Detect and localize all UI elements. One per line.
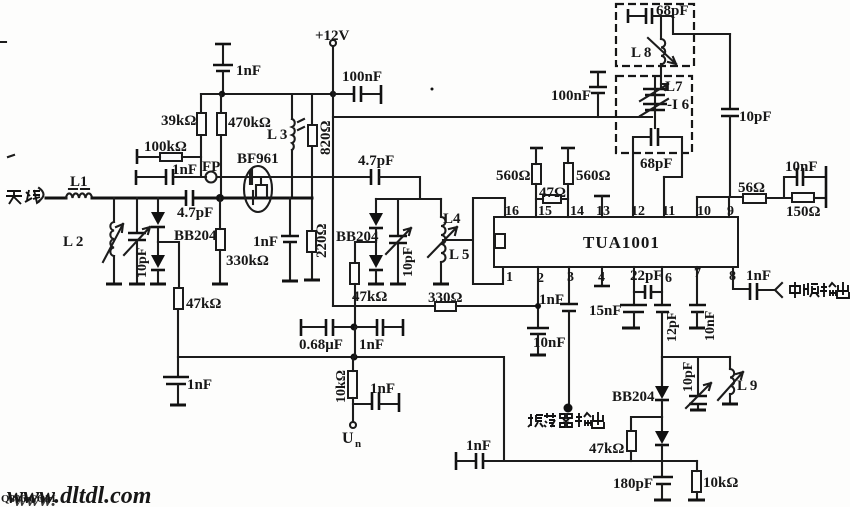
inductor L2 tunable	[63, 198, 123, 283]
power +12V terminal	[315, 28, 350, 306]
svg-text:1nF: 1nF	[466, 438, 491, 454]
pin 10 stub	[697, 197, 711, 219]
svg-text:39kΩ: 39kΩ	[161, 113, 196, 129]
svg-text:820Ω: 820Ω	[318, 120, 334, 155]
resistor 47kOhm mixer	[589, 431, 636, 461]
antenna label TianXian (glyphs drawn)	[6, 190, 40, 204]
svg-text:10pF: 10pF	[401, 247, 416, 277]
ground 10nF pin2	[530, 354, 546, 357]
svg-text:9: 9	[727, 204, 734, 219]
svg-text:15nF: 15nF	[589, 303, 622, 319]
resistor 47kOhm osc	[350, 263, 387, 327]
svg-text:10nF: 10nF	[785, 159, 818, 175]
svg-text:4.7pF: 4.7pF	[358, 153, 394, 169]
svg-text:L4: L4	[443, 211, 461, 227]
ground 10nF pin7	[689, 327, 705, 330]
capacitor 0.68uF left bar	[300, 319, 303, 336]
node junction +12V rail	[330, 91, 336, 97]
ground 330kOhm	[212, 283, 228, 286]
diode BB204 osc lower varactor	[369, 242, 383, 283]
capacitor 1nF IF output	[746, 268, 774, 300]
node junction 0.68uF/47k	[351, 324, 358, 331]
diode BB204 lower varactor	[151, 228, 217, 283]
capacitor 1nF tuning-line bypass	[163, 377, 212, 404]
svg-text:1nF: 1nF	[172, 162, 197, 178]
label IF output (zhong pin shu chu)	[790, 282, 849, 298]
shield box L7 L6 dashed	[616, 76, 692, 153]
svg-text:7: 7	[694, 266, 701, 281]
svg-text:L 5: L 5	[449, 247, 469, 263]
capacitor 15nF	[589, 303, 647, 327]
svg-text:68pF: 68pF	[640, 156, 673, 172]
pin 3 stub	[567, 267, 574, 304]
wire long +12V feed y=117	[333, 116, 652, 118]
svg-text:10pF: 10pF	[739, 109, 772, 125]
wire gate1 line	[194, 197, 312, 200]
shield box L8 dashed	[616, 4, 694, 66]
svg-text:100nF: 100nF	[551, 88, 591, 104]
svg-text:12pF: 12pF	[665, 312, 680, 342]
op-amp U1 TUA1001 IC body	[494, 217, 738, 267]
svg-text:2: 2	[537, 271, 544, 286]
resistor 330Ohm supply	[333, 290, 538, 311]
terminal Un	[342, 422, 361, 450]
resistor 39kOhm	[161, 94, 206, 177]
wire G2/drain line y=177	[217, 176, 371, 178]
capacitor 1nF pin3	[560, 304, 578, 408]
resistor 220Ohm source	[307, 223, 330, 279]
ground 15nF	[622, 327, 640, 330]
capacitor 10nF pin7	[689, 305, 718, 341]
svg-text:100kΩ: 100kΩ	[144, 139, 187, 155]
capacitor 0.68uF	[299, 319, 353, 353]
svg-text:BB204: BB204	[174, 228, 217, 244]
capacitor 10pF osc trimmer	[386, 199, 416, 283]
svg-text:BB204: BB204	[612, 389, 655, 405]
ground 10pF right trimmer	[690, 409, 706, 412]
resistor 560Ohm pin14	[561, 148, 611, 184]
node FP test point	[202, 159, 220, 183]
capacitor 4.7pF drain coupling	[358, 153, 420, 199]
svg-text:-I 6: -I 6	[667, 97, 690, 113]
wire pin6 branch y=357	[662, 356, 730, 358]
resistor 150Ohm	[786, 193, 825, 220]
svg-text:12: 12	[631, 204, 645, 219]
ground BB204 input	[150, 283, 166, 286]
wire mixer varactor tap	[631, 417, 662, 431]
ground BB204 osc	[368, 283, 384, 286]
wire varactor tap	[158, 242, 179, 288]
svg-text:1nF: 1nF	[359, 337, 384, 353]
wire pin16 loop	[473, 198, 505, 284]
capacitor 100nF top	[333, 69, 382, 104]
svg-text:6: 6	[665, 271, 672, 286]
svg-text:TUA1001: TUA1001	[583, 233, 660, 252]
wire tuning line	[178, 357, 504, 461]
svg-text:15: 15	[538, 204, 552, 219]
node junction tuning/10k	[351, 354, 358, 361]
antenna connector arc	[39, 188, 44, 201]
resistor 560Ohm pin15	[496, 148, 543, 184]
svg-text:16: 16	[505, 204, 519, 219]
svg-text:n: n	[355, 438, 361, 450]
wire bottom line y=461	[484, 460, 697, 462]
resistor 56Ohm	[738, 180, 792, 203]
ground 180pF	[654, 499, 671, 502]
stray scan marks	[0, 42, 14, 157]
svg-text:+12V: +12V	[315, 28, 350, 44]
svg-text:L 8: L 8	[631, 45, 651, 61]
capacitor 180pF	[613, 461, 673, 499]
svg-text:47kΩ: 47kΩ	[589, 441, 624, 457]
ground 10pF trimmer	[129, 283, 145, 286]
svg-text:L 3: L 3	[267, 127, 287, 143]
svg-text:560Ω: 560Ω	[496, 168, 531, 184]
resistor 47kOhm input	[174, 288, 221, 377]
capacitor 10pF top right	[721, 34, 772, 197]
svg-text:47kΩ: 47kΩ	[186, 296, 221, 312]
svg-text:330kΩ: 330kΩ	[226, 253, 269, 269]
svg-text:47Ω: 47Ω	[539, 185, 566, 201]
capacitor 1nF bottom	[456, 438, 491, 470]
ground 220Ohm	[304, 279, 320, 282]
resistor 330kOhm	[216, 198, 269, 283]
wire pin9 pin10	[697, 196, 743, 198]
ground 1nF source	[282, 280, 298, 283]
inductor L5	[428, 227, 469, 283]
wire antenna input	[46, 197, 66, 200]
inductor L4	[441, 199, 461, 244]
capacitor 10nF output	[784, 159, 825, 198]
inductor L1	[66, 174, 92, 198]
capacitor 12pF	[654, 305, 680, 386]
inductor L8 tunable	[631, 16, 676, 88]
svg-text:10pF: 10pF	[135, 248, 150, 278]
pin 9 stub	[727, 197, 734, 219]
pin 4 stub with ground	[594, 267, 610, 286]
svg-text:10nF: 10nF	[703, 311, 718, 341]
capacitor 1nF mid	[355, 319, 403, 353]
label oscillator output (zhen dang qi shu chu)	[528, 412, 604, 428]
svg-text:150Ω: 150Ω	[786, 204, 821, 220]
capacitor 4.7pF series	[177, 190, 213, 221]
svg-text:10nF: 10nF	[533, 335, 566, 351]
svg-text:4.7pF: 4.7pF	[177, 205, 213, 221]
transistor BF961 dual-gate MOSFET	[237, 151, 279, 212]
pin 6 stub	[662, 267, 672, 305]
svg-text:www.dltdl.com: www.dltdl.com	[7, 483, 151, 507]
terminal oscillator output node	[564, 404, 573, 413]
capacitor 10pF trimmer right	[681, 357, 711, 409]
svg-text:1nF: 1nF	[187, 377, 212, 393]
svg-text:47kΩ: 47kΩ	[352, 289, 387, 305]
node junction 1nF/470k	[219, 91, 225, 97]
diode BB204 mixer lower	[655, 417, 669, 461]
wire osc varactor tap	[355, 242, 376, 263]
wire bias rail y=94	[201, 93, 333, 95]
resistor 100kOhm	[137, 139, 201, 164]
wire 47k to tuning line	[354, 327, 356, 357]
capacitor 10nF pin2	[527, 328, 566, 354]
svg-text:220Ω: 220Ω	[314, 223, 330, 258]
diode BB204 osc upper varactor	[336, 199, 383, 245]
watermark www.dltdl.com	[1, 483, 151, 507]
svg-text:U: U	[342, 430, 354, 447]
ground L4 L5	[433, 283, 449, 286]
node G1 junction	[216, 194, 224, 202]
svg-text:4: 4	[598, 270, 605, 285]
svg-text:22pF: 22pF	[630, 268, 663, 284]
wire oscillator top y=199	[376, 198, 441, 200]
svg-text:3: 3	[567, 270, 574, 285]
pin 12 stub	[631, 137, 645, 219]
capacitor 100nF right	[551, 72, 607, 117]
svg-text:L 2: L 2	[63, 234, 83, 250]
svg-text:L7: L7	[665, 79, 683, 95]
inductor L9 tunable	[718, 357, 757, 403]
svg-text:11: 11	[662, 204, 675, 219]
resistor 10kOhm Un	[334, 357, 357, 422]
svg-text:L1: L1	[70, 174, 88, 190]
svg-text:100nF: 100nF	[342, 69, 382, 85]
svg-text:0.68μF: 0.68μF	[299, 337, 343, 353]
inductor L6 tunable	[640, 78, 690, 128]
diode BB204 mixer upper	[612, 357, 669, 417]
svg-text:330Ω: 330Ω	[428, 290, 463, 306]
svg-text:8: 8	[729, 269, 736, 284]
inductor L7 tunable	[640, 79, 683, 101]
svg-text:470kΩ: 470kΩ	[228, 115, 271, 131]
svg-text:560Ω: 560Ω	[576, 168, 611, 184]
resistor 470kOhm	[217, 94, 271, 198]
pin 7 stub	[694, 266, 701, 305]
pin 2 stub	[537, 267, 544, 328]
pin 15 stub	[536, 184, 552, 219]
capacitor 68pF lower	[634, 128, 682, 177]
svg-text:13: 13	[596, 204, 610, 219]
svg-text:10kΩ: 10kΩ	[334, 370, 349, 403]
capacitor 22pF	[630, 268, 663, 299]
svg-text:10pF: 10pF	[681, 362, 696, 392]
svg-text:1nF: 1nF	[746, 268, 771, 284]
svg-text:56Ω: 56Ω	[738, 180, 765, 196]
svg-text:BF961: BF961	[237, 151, 279, 167]
ground L2	[106, 283, 122, 286]
svg-text:L 9: L 9	[737, 378, 757, 394]
svg-text:1nF: 1nF	[253, 234, 278, 250]
svg-text:1nF: 1nF	[370, 381, 395, 397]
diode BB204 upper varactor	[151, 198, 165, 242]
svg-text:10: 10	[697, 204, 711, 219]
capacitor 10pF trimmer input	[124, 198, 150, 283]
svg-text:1nF: 1nF	[236, 63, 261, 79]
terminal IF output connector	[775, 283, 782, 297]
ground 10kOhm mixer	[688, 499, 705, 502]
capacitor 68pF upper	[628, 3, 730, 34]
ground 10pF osc trimmer	[390, 283, 406, 286]
svg-text:10kΩ: 10kΩ	[703, 475, 738, 491]
ground 1nF tuning-line	[170, 404, 186, 407]
capacitor 1nF at FP	[136, 162, 206, 185]
resistor 820Ohm	[308, 94, 334, 231]
capacitor C top-left 1nF	[213, 44, 261, 94]
svg-text:180pF: 180pF	[613, 476, 653, 492]
svg-text:1: 1	[506, 270, 513, 285]
svg-text:14: 14	[570, 204, 584, 219]
pin 14 stub	[568, 184, 584, 219]
pin 13 stub with bar	[594, 196, 610, 219]
pin 11 stub	[662, 177, 675, 219]
resistor 10kOhm mixer	[692, 461, 738, 499]
pin 5 stub	[633, 267, 635, 305]
wire L4 L5 tap to IC	[443, 239, 472, 241]
resistor 47Ohm bridge	[536, 185, 568, 203]
ground L9	[722, 403, 738, 406]
capacitor 1nF source bypass	[253, 198, 299, 280]
wire antenna to coupling cap	[92, 197, 185, 200]
svg-text:1nF: 1nF	[539, 292, 564, 308]
capacitor 1nF at Un	[353, 381, 399, 412]
svg-text:FP: FP	[202, 159, 220, 175]
node junction pin2/330	[535, 303, 541, 309]
inductor L3	[267, 94, 304, 198]
terminal bar right	[825, 166, 828, 208]
pin 8 stub	[729, 267, 749, 289]
